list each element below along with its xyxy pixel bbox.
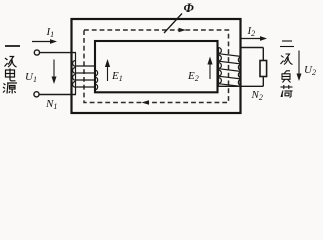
svg-text:Φ: Φ: [184, 0, 195, 15]
